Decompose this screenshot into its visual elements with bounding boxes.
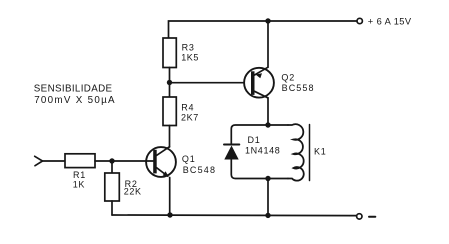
resistor R2 xyxy=(105,161,120,215)
node R1/R2 junction xyxy=(109,158,114,163)
svg-text:700mV X 50µA: 700mV X 50µA xyxy=(34,95,116,106)
node Q1 emitter / bottom rail junction xyxy=(167,212,172,217)
svg-text:+ 6 A 15V: + 6 A 15V xyxy=(368,16,412,26)
relay K1 core xyxy=(309,125,311,181)
diode D1 xyxy=(224,145,239,160)
svg-text:Q2: Q2 xyxy=(281,73,295,83)
terminal +V xyxy=(357,18,362,23)
wire Q2 collector down xyxy=(267,98,269,125)
relay K1 coil xyxy=(288,124,304,180)
wire Q2 emitter to top rail xyxy=(267,21,269,67)
node relay box top junction xyxy=(265,122,270,127)
svg-text:1K: 1K xyxy=(73,180,85,190)
input arrow xyxy=(35,156,43,165)
svg-text:1N4148: 1N4148 xyxy=(245,146,280,156)
transistor Q1 xyxy=(146,147,176,178)
wire relay box bottom xyxy=(231,160,288,179)
wire relay box top xyxy=(231,125,288,145)
terminal - xyxy=(357,214,362,219)
resistor R3 xyxy=(163,38,176,68)
svg-text:Q1: Q1 xyxy=(182,154,196,164)
transistor Q2 xyxy=(244,67,274,98)
wire top rail xyxy=(169,21,357,38)
svg-text:BC558: BC558 xyxy=(282,83,315,93)
resistor R4 xyxy=(163,97,176,126)
node bottom rail junction xyxy=(265,213,270,218)
resistor R1 xyxy=(65,154,95,168)
svg-text:D1: D1 xyxy=(248,135,261,145)
wire R3 to R4 xyxy=(169,68,171,98)
svg-text:R3: R3 xyxy=(182,42,195,52)
svg-text:R4: R4 xyxy=(181,102,194,112)
wire bottom rail xyxy=(112,214,356,217)
svg-text:22K: 22K xyxy=(124,187,142,197)
node R3/R4 junction xyxy=(167,80,172,85)
svg-text:SENSIBILIDADE: SENSIBILIDADE xyxy=(34,84,113,95)
wire Q1 emitter to bottom rail xyxy=(169,178,171,216)
svg-text:2K7: 2K7 xyxy=(181,113,199,123)
node Q2 emitter / top rail junction xyxy=(265,18,270,23)
wire R4 to Q1 collector xyxy=(169,126,171,148)
wire junction to Q2 base xyxy=(170,82,253,84)
label minus xyxy=(369,216,375,218)
wire input to R1 xyxy=(43,160,66,162)
svg-text:K1: K1 xyxy=(314,147,327,157)
wire R1 to Q1 base xyxy=(95,160,146,162)
svg-text:1K5: 1K5 xyxy=(181,52,199,62)
node relay box bottom junction xyxy=(265,176,270,181)
svg-text:BC548: BC548 xyxy=(183,165,217,175)
wire relay bottom to rail xyxy=(267,179,269,216)
